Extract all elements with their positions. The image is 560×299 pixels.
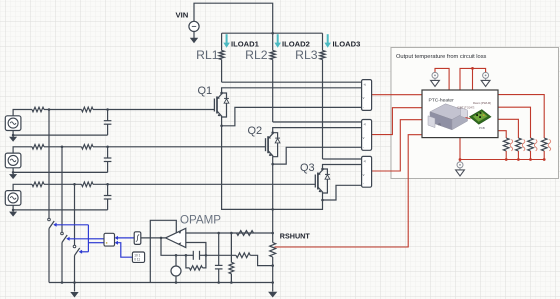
ground: row 1 reference arrow (9, 137, 17, 142)
wire: PTC-heater top ports B,C to thermal reference W2 (red) (460, 67, 486, 91)
wire: VIN source negative lead (193, 32, 195, 39)
thermal reference W1 (431, 71, 440, 86)
wire: capacitor C1 return to source (13, 134, 108, 136)
PTC-heater label (429, 97, 455, 103)
switch logic block B1 (104, 233, 115, 246)
svg-text:IGBT [TO247]: IGBT [TO247] (457, 106, 475, 110)
svg-text:RL2: RL2 (245, 48, 268, 62)
wire: thermal resistor common rail (red) (460, 159, 544, 161)
op-amp U5 (166, 228, 186, 247)
wire: tap row3 to switch S3 (74, 184, 76, 245)
svg-text:+i: +i (363, 83, 366, 87)
resistor RSHUNT (270, 243, 276, 258)
wire: capacitor C3 return to source (13, 209, 108, 211)
wire: sense resistor to shunt bottom (250, 255, 273, 265)
capacitor C3 (104, 184, 112, 210)
current annotation ILOAD3 arrow (324, 34, 331, 48)
transistor Q2 (IGBT with diode) (266, 131, 281, 156)
svg-text:RL3: RL3 (295, 48, 318, 62)
svg-text:+i: +i (363, 160, 366, 164)
pulse source V3 (5, 191, 21, 206)
power sensor U3 (362, 156, 372, 187)
resistor R2b (82, 145, 94, 150)
label Q1 (198, 85, 213, 97)
wire: tap row1 to switch S1 (48, 110, 50, 219)
switch S3 (73, 245, 80, 255)
label RL1 (196, 48, 219, 62)
wire: row 2 to Q2 gate (93, 146, 266, 149)
thermal resistor RT4 (541, 138, 550, 161)
wire: source V2 negative lead (12, 168, 15, 176)
wire: tap row2 to switch S2 (61, 147, 63, 232)
svg-text:Q2: Q2 (248, 125, 263, 137)
wire: output to feedback node (161, 238, 186, 255)
wire: rail to ground arrow (74, 283, 76, 292)
wire: B3 to B1 (blue) (115, 241, 133, 258)
current annotation ILOAD1 arrow (223, 34, 230, 48)
svg-text:PTC-heater: PTC-heater (429, 97, 455, 103)
subsystem U4 PTC-heater box (422, 90, 498, 138)
wire: PTC-heater right port 4 to thermal resistor RT1 (red) (498, 131, 506, 138)
wire: RSHUNT bottom node (271, 257, 274, 292)
wire: opamp - input jog (186, 243, 206, 256)
resistor RL2 (270, 33, 275, 122)
label Q2 (248, 125, 263, 137)
wire: sensor U2 output to PTC-heater port 2 (red) (372, 108, 423, 135)
wire: row 2 tap node (44, 146, 82, 149)
wire: opamp feedback loop (left) (150, 220, 176, 282)
svg-text:RL1: RL1 (196, 48, 219, 62)
wire: sensor U2 current-out to Q2 collector (273, 128, 362, 133)
wire: opamp + input from shunt top (186, 232, 274, 235)
voltage source V4 (offset) (171, 254, 181, 284)
resistor R1a (32, 107, 44, 112)
resistor R8 (sense bottom) (236, 253, 250, 258)
gain block B2 (134, 232, 141, 245)
svg-text:OPAMP: OPAMP (180, 214, 221, 227)
ground: main reference arrow (70, 292, 78, 298)
control wire B1 lower output (blue) (88, 242, 104, 244)
wire: RL1 to sensor U1 current-in (222, 81, 362, 83)
capacitor C1 (104, 110, 112, 136)
svg-text:Q3: Q3 (300, 162, 315, 174)
resistor R1b (82, 107, 94, 112)
svg-text:0 11: 0 11 (134, 258, 140, 262)
thermal resistor RT2 (516, 138, 525, 161)
capacitor C5 (feedback) (185, 251, 208, 260)
ground: VIN reference arrow (190, 38, 198, 44)
resistor R7 (feedback) (186, 255, 206, 270)
wire: source V1 to gate resistor (13, 110, 32, 116)
svg-text:+i: +i (363, 123, 366, 127)
wire: Q1 emitter node (220, 117, 272, 209)
svg-text:VIN: VIN (176, 11, 189, 20)
ground: row 2 reference arrow (9, 174, 17, 179)
svg-text:-: - (363, 105, 364, 109)
wire: switch S1 to ground rail (48, 229, 50, 283)
PTC-heater 3D resistor image (428, 104, 468, 130)
svg-text:-: - (363, 182, 364, 186)
wire: VIN source to top rail (194, 3, 273, 33)
wire: sensor U3 current-out to Q3 collector (323, 165, 362, 170)
svg-text:PCB: PCB (479, 126, 485, 130)
pulse source V2 (5, 153, 21, 168)
label RSHUNT (280, 232, 311, 241)
wire: source V1 negative lead (12, 131, 15, 139)
wire: PTC-heater top port A to thermal reference W1 (red) (435, 68, 449, 91)
svg-text:Output temperature from circui: Output temperature from circuit loss (396, 54, 487, 60)
PTC-heater tiny annotations (457, 101, 491, 130)
thermal subsystem panel (391, 48, 559, 179)
wire: RSHUNT loss signal to PTC-heater port 4 (red) (275, 135, 423, 247)
label ILOAD2 (282, 40, 310, 49)
wire: Q3 emitter to sensor U3 sense port (323, 185, 362, 200)
pattern block B3 (132, 252, 144, 262)
current annotation ILOAD2 arrow (274, 34, 281, 48)
resistor R9 (filter) (229, 233, 234, 284)
wire: switch S3 to ground rail (73, 256, 76, 284)
thermal resistor RT1 (503, 138, 512, 161)
capacitor C6 (filter) (215, 233, 223, 284)
resistor RL1 (219, 33, 224, 82)
svg-text:ILOAD3: ILOAD3 (333, 40, 361, 49)
transistor Q1 (IGBT with diode) (214, 92, 229, 117)
wire: top rail RL1-RL2-RL3 (222, 32, 323, 35)
wire: sensor U3 output to PTC-heater port 3 (red) (372, 120, 423, 171)
wire: B2 output to opamp U5 output node (141, 237, 166, 240)
svg-text:v: v (363, 136, 365, 140)
wire: sensor U1 output to PTC-heater port 1 (red) (372, 94, 423, 96)
resistor R3a (32, 182, 44, 187)
wire: Q2 emitter node (271, 157, 274, 243)
wire: row 3 to Q3 gate (93, 183, 315, 186)
capacitor C2 (104, 147, 112, 173)
resistor RL3 (320, 33, 325, 159)
resistor R6 (sense top) (237, 231, 254, 236)
wire: PTC-heater right port 2 to thermal resistor RT3 (red) (498, 107, 531, 138)
control wire to switch S2 (blue) (66, 237, 104, 241)
VIN label (176, 11, 189, 20)
wire: source V3 to gate resistor (13, 184, 32, 190)
label ILOAD1 (231, 40, 260, 49)
power sensor U1 (362, 80, 372, 111)
control wire to switch S3 (blue) (79, 250, 89, 254)
resistor R3b (82, 182, 94, 187)
wire: RL2 to sensor U2 current-in (273, 121, 362, 123)
ground: row 3 reference arrow (9, 212, 17, 217)
wire: RL3 to sensor U3 current-in (323, 158, 362, 160)
control wire to switch S1 (blue) (53, 223, 88, 227)
wire: sensor U1 current-out to Q1 collector (222, 88, 362, 93)
wire: Q1 emitter to sensor U1 sense port (222, 107, 362, 125)
svg-text:Q1: Q1 (198, 85, 213, 97)
switch S1 (48, 218, 55, 228)
wire: switch S2 to ground rail (61, 243, 64, 284)
pulse source V1 (5, 116, 21, 131)
voltage source VIN (189, 21, 199, 31)
label Q3 (300, 162, 315, 174)
svg-text:ILOAD1: ILOAD1 (231, 40, 260, 49)
svg-text:v: v (363, 173, 365, 177)
wire: capacitor C2 return to source (13, 171, 108, 173)
panel title: Output temperature from circuit loss (396, 54, 487, 60)
wire: row 1 to Q1 gate (93, 108, 214, 111)
resistor R2a (32, 145, 44, 150)
wire: source V3 negative lead (12, 205, 15, 213)
wire: PTC-heater right port 1 to thermal resistor RT4 (red) (498, 95, 544, 138)
svg-text:RSHUNT: RSHUNT (280, 232, 311, 241)
svg-text:-: - (363, 145, 364, 149)
wire: PTC-heater right port 3 to thermal resistor RT2 (red) (498, 119, 518, 138)
svg-text:Rasm [PWLM]: Rasm [PWLM] (473, 101, 491, 105)
thermal reference W3 (456, 161, 465, 176)
wire: PTC-heater bottom port to rail (red) (459, 138, 462, 162)
wire: source V2 to gate resistor (13, 147, 32, 153)
ground: RSHUNT reference arrow (268, 292, 277, 298)
wire: bottom ground rail (49, 282, 273, 284)
svg-text:v: v (363, 96, 365, 100)
label RL2 (245, 48, 268, 62)
wire: row 3 tap node (44, 183, 82, 186)
thermal resistor RT3 (528, 138, 537, 161)
label OPAMP (180, 214, 221, 227)
transistor Q3 (IGBT with diode) (315, 168, 330, 193)
wire: row 1 tap node (44, 108, 82, 111)
power sensor U2 (362, 120, 372, 151)
control bus vertical (blue) (87, 225, 89, 252)
wire: Q2 emitter to sensor U2 sense port (273, 147, 362, 164)
label ILOAD3 (333, 40, 361, 49)
label RL3 (295, 48, 318, 62)
svg-text:ILOAD2: ILOAD2 (282, 40, 310, 49)
PTC-heater PCB image (466, 110, 492, 125)
thermal reference W2 (481, 71, 490, 86)
wire: B2 to B1 (blue) (115, 236, 135, 240)
wire: Q3 emitter node (271, 193, 323, 211)
switch S2 (61, 232, 67, 242)
wire: - input to sense resistor (206, 254, 236, 256)
